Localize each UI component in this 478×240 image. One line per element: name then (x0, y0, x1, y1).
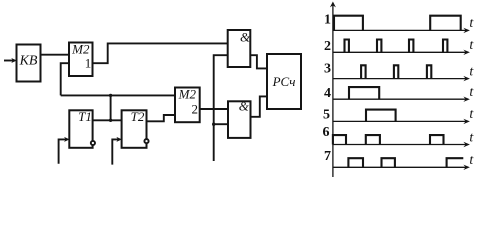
timing row 2: time axis with arrow and t label (333, 38, 474, 55)
wire: strobe branch to AND gate D2 lower input (214, 123, 228, 125)
wire: clock input arrow into Т2 (112, 137, 122, 165)
block T1 (trigger Т1) (69, 109, 92, 148)
wire: AND gate U2 output step up to РСч lower input (251, 96, 268, 116)
wire: М2-2 output to AND gate D2 upper input (200, 108, 228, 110)
timing row 1: time axis with arrow and t label (333, 16, 474, 33)
wire: external input arrow into КВ (4, 58, 17, 63)
svg-text:4: 4 (324, 86, 331, 101)
wire: feedback branch up into М2-1 lower input (61, 63, 69, 95)
svg-text:7: 7 (324, 149, 331, 164)
pin: Т2 inverted output bubble (144, 139, 148, 143)
wire: М2-1 output up and across to AND gate D1 upper input (93, 43, 228, 63)
timing row 7: time axis with arrow and t label (333, 153, 474, 170)
block RSch (counting register РСч) (267, 54, 301, 109)
node: junction on Т1 output wire (109, 119, 112, 122)
timing row 5: time axis with arrow and t label (333, 107, 474, 124)
svg-text:Т2: Т2 (131, 109, 145, 124)
svg-text:t: t (469, 153, 474, 168)
svg-text:1: 1 (85, 56, 92, 71)
svg-text:КВ: КВ (19, 54, 38, 69)
wire: Т2 output step up to М2-2 lower input (147, 115, 176, 121)
pin: Т1 inverted output bubble (91, 141, 95, 145)
gate U1 (upper AND gate &) (228, 30, 251, 68)
timing row 2: waveform signal 2 (345, 40, 448, 53)
svg-text:5: 5 (323, 108, 330, 123)
svg-text:t: t (469, 85, 474, 100)
svg-text:2: 2 (324, 39, 331, 54)
block T2 (trigger Т2) (122, 109, 147, 148)
svg-text:1: 1 (324, 13, 331, 28)
svg-text:t: t (469, 16, 474, 31)
timing row 6: time axis with arrow and t label (333, 130, 474, 147)
timing row 5: waveform signal 5 (366, 110, 396, 122)
timing row 3: time axis with arrow and t label (333, 64, 474, 81)
wire: Т1 output to Т2 input (93, 119, 122, 121)
block M2-1 (modulo-2 adder М2, output 1) (69, 42, 93, 77)
svg-text:РСч: РСч (272, 74, 296, 89)
block M2-2 (modulo-2 adder М2, output 2) (175, 86, 200, 122)
node: junction on bus at top of Т1-Т2 link (109, 94, 112, 97)
wire: trigger output bus to М2-2 upper input (61, 94, 175, 96)
svg-text:6: 6 (323, 125, 330, 140)
wire: strobe line vertical with branch to AND gate D1 lower input (214, 55, 228, 161)
svg-text:М2: М2 (71, 42, 90, 57)
svg-text:t: t (469, 130, 474, 145)
svg-text:&: & (240, 30, 251, 45)
wire: vertical link from bus down to Т1-Т2 wire (110, 95, 112, 120)
wire: clock input arrow into Т1 (59, 137, 70, 164)
svg-text:t: t (469, 107, 474, 122)
wire: AND gate U1 output step down to РСч upper input (250, 55, 267, 68)
timing row 7: waveform signal 7 (348, 158, 463, 167)
timing row 1: waveform signal 1 (334, 16, 461, 31)
wire: КВ output to М2-1 upper input (41, 54, 70, 56)
svg-text:t: t (469, 64, 474, 79)
timing row 6: waveform signal 6 (333, 135, 444, 144)
svg-text:t: t (469, 38, 474, 53)
svg-text:М2: М2 (178, 86, 197, 101)
timing row 3: waveform signal 3 (361, 65, 431, 78)
svg-text:Т1: Т1 (78, 109, 92, 124)
svg-text:3: 3 (324, 62, 331, 77)
timing row 4: waveform signal 4 (349, 87, 379, 99)
svg-text:2: 2 (191, 102, 198, 117)
svg-text:&: & (239, 99, 250, 114)
timing diagram: common amplitude axis with up arrow (330, 2, 336, 178)
node: junction on strobe line (212, 123, 215, 126)
block KB (input shaper КВ) (17, 45, 41, 82)
timing row 4: time axis with arrow and t label (333, 85, 474, 102)
gate U2 (lower AND gate &) (228, 99, 251, 138)
